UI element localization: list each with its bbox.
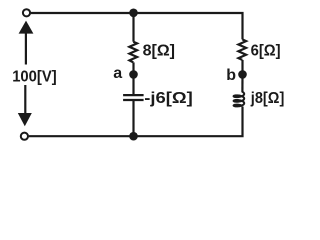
- terminal circle top-left: [23, 9, 30, 16]
- svg-text:-j6[Ω]: -j6[Ω]: [144, 90, 193, 107]
- wire capacitor to bottom: [132, 100, 134, 136]
- svg-text:b: b: [226, 67, 236, 84]
- wire middle branch upper: [132, 13, 134, 42]
- wire resistor8 to node a: [132, 62, 134, 74]
- inductor L j8ohm coil: [234, 92, 245, 107]
- node a dot: [129, 70, 138, 79]
- voltage arrowhead down: [18, 113, 32, 126]
- capacitor C bottom plate: [123, 99, 144, 101]
- svg-text:a: a: [113, 65, 122, 82]
- wire node b to inductor: [241, 74, 243, 92]
- capacitor C top plate: [123, 94, 144, 96]
- svg-text:j8[Ω]: j8[Ω]: [250, 90, 284, 107]
- wire top horizontal with right corner: [31, 13, 243, 39]
- voltage arrowhead up: [19, 21, 34, 34]
- voltage arrow shaft upper: [25, 33, 27, 64]
- svg-text:100[V]: 100[V]: [12, 68, 57, 85]
- junction dot bottom middle: [129, 132, 138, 141]
- resistor R 6ohm zigzag: [238, 39, 246, 60]
- junction dot top middle: [129, 9, 138, 18]
- voltage arrow shaft lower: [24, 85, 26, 113]
- resistor R 8ohm zigzag: [129, 42, 137, 63]
- svg-text:6[Ω]: 6[Ω]: [251, 42, 281, 59]
- terminal circle bottom-left: [21, 133, 28, 140]
- svg-text:8[Ω]: 8[Ω]: [143, 42, 175, 59]
- wire node a to capacitor: [132, 74, 134, 95]
- wire resistor6 to node b: [241, 60, 243, 75]
- node b dot: [238, 70, 247, 79]
- wire bottom horizontal with right corner: [29, 107, 243, 137]
